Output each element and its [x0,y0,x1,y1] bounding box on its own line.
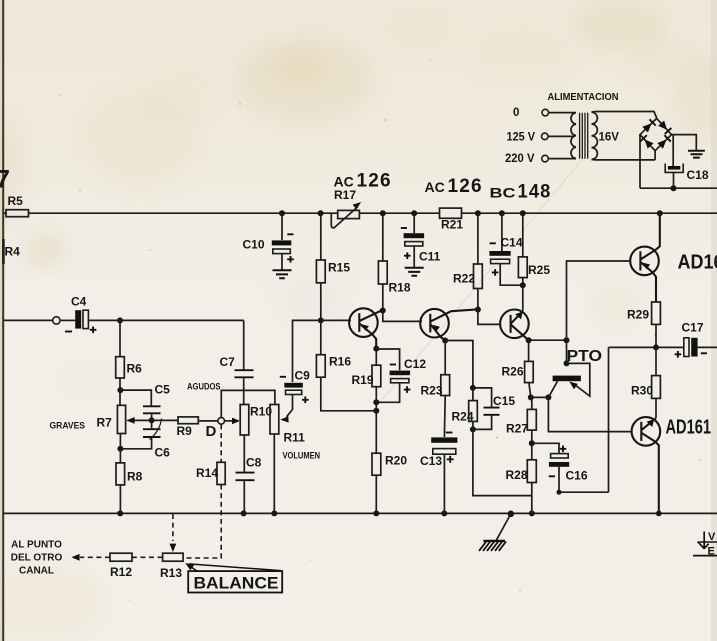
wire 220V to primary bottom [548,158,576,160]
potentiometer R7 [117,405,125,433]
svg-text:R23: R23 [421,384,443,398]
svg-text:R17: R17 [334,188,356,202]
capacitor C12 [390,371,411,376]
junction R22 top [475,210,481,216]
wire R23 top [444,341,446,375]
svg-text:CANAL: CANAL [19,566,54,577]
svg-text:C18: C18 [687,168,709,182]
capacitor C15 [484,408,500,415]
C14 plus sign [492,269,499,276]
junction C11 top [411,210,417,216]
svg-text:R13: R13 [160,566,182,580]
svg-text:C4: C4 [71,295,87,309]
wire C16 bottom to output column [559,467,609,492]
wire emitter node to Q3 [522,285,524,311]
C12 plus sign [404,386,411,393]
resistor R16 [316,355,325,378]
wire wiper row to R9 [152,419,178,421]
wire node D to R10 arrow [225,420,234,422]
capacitor C17 [684,338,689,357]
wire R27 top [531,397,533,409]
junction Q2 collector / R22 [475,307,481,313]
svg-text:C17: C17 [682,321,704,335]
svg-text:C15: C15 [493,394,515,408]
junction C10 top [279,210,285,216]
resistor R14 [217,462,225,484]
BALANCE pointer arrow [188,564,281,571]
diode D1 top-left [642,123,651,132]
wire rail R5 to R17 [29,212,338,214]
resistor R9 [178,417,198,424]
junction PTO collector node [545,394,551,400]
transformer T1 secondary 16V [592,112,598,159]
capacitor C14 [489,251,510,256]
svg-text:R9: R9 [177,424,193,438]
svg-text:AD16: AD16 [678,252,717,274]
wire 125V tap [548,135,574,137]
C16 plus sign [560,446,567,453]
junction output node [653,344,659,350]
capacitor C5 [143,406,161,413]
wire input lead [4,319,53,321]
wire C15 top lead [473,388,492,407]
wire C12 bottom to R19 bottom node [376,383,399,403]
svg-text:C6: C6 [155,446,171,460]
wire C10 lead [281,213,283,240]
terminal 0 [542,109,549,116]
resistor R6 [116,357,125,378]
page edge strip [0,0,2,641]
wire R16 bottom to R19 node [321,377,377,411]
svg-text:148: 148 [518,182,552,203]
wire R15 to base node [320,283,322,321]
junction C15 top [470,385,476,391]
capacitor C7 [235,370,254,377]
svg-text:ALIMENTACION: ALIMENTACION [548,91,619,103]
wire C17 out to right edge [698,346,717,348]
resistor R23 [441,375,450,396]
junction PTO column top [564,337,570,343]
wire R19 to R20 [375,387,377,454]
wire node to C16 top [532,443,559,453]
paper specks [59,59,701,601]
wire output row [609,346,684,348]
junction C16 bottom [557,490,562,495]
svg-text:220 V: 220 V [505,153,535,165]
paper crease [380,150,590,402]
svg-text:V: V [708,531,716,543]
junction Q1 base node [318,317,324,323]
svg-text:AL PUNTO: AL PUNTO [11,540,62,551]
svg-text:R8: R8 [127,470,143,484]
svg-text:DEL OTRO: DEL OTRO [11,553,63,564]
C12 minus sign [390,364,396,366]
wire R23 to C13 [443,396,446,438]
C13 minus sign [446,432,453,434]
wire Q2 emitter node to C15 column [445,341,473,388]
wire C18 to bottom rail [673,172,675,188]
wire rail R17 to R21 [359,212,439,214]
svg-text:BALANCE: BALANCE [194,574,279,593]
C17 plus sign [675,351,682,358]
wire R16 column [320,320,322,354]
R17 wiper loop and arrow [331,207,358,228]
svg-text:0: 0 [513,107,519,119]
junction R7 bottom [117,446,123,452]
svg-text:R5: R5 [8,194,24,208]
ground symbol C10 [273,270,292,278]
C17 minus sign [701,352,707,354]
svg-text:R30: R30 [631,384,653,398]
wire R30 to lower emitter [655,398,657,418]
wire bridge left corner down [639,135,641,189]
wire C7 to agudos row [243,378,245,390]
C10 plus sign [287,256,294,263]
svg-text:R6: R6 [127,362,143,376]
transistor Q1 AC126 [349,308,378,337]
transistor Q3 BC148 [500,310,529,339]
dashed wire R13 to R12 [132,556,163,558]
transformer T1 core [580,113,588,159]
wire R26 top [528,340,530,361]
svg-text:R28: R28 [506,468,528,482]
svg-text:R10: R10 [250,405,272,419]
wire R29 to output node [655,324,657,347]
wire C9 top [293,320,321,382]
junction Q3 emitter node [520,282,526,288]
svg-text:AC: AC [334,174,354,190]
junction Q2 emitter [442,338,448,344]
wire C11 to ground [413,246,415,267]
wire ground rail [3,512,717,514]
wire R25 to emitter node [522,278,524,286]
resistor R12 [110,553,132,561]
capacitor C9 [284,383,303,388]
wire R10 top lead [243,390,245,404]
wire C14 top lead [501,213,503,251]
wire R25 column [522,213,524,257]
svg-text:R16: R16 [329,355,351,369]
terminal 125V [542,133,549,140]
junction R25 top [520,210,526,216]
svg-text:VOLUMEN: VOLUMEN [283,451,321,462]
resistor R15 [316,260,325,283]
transformer T1 primary [571,113,576,159]
V/E measurement mark [698,532,709,549]
resistor R28 [527,460,536,483]
wire C10 to ground [281,254,283,270]
svg-text:R29: R29 [627,308,649,322]
capacitor C6 [143,429,161,437]
svg-text:C7: C7 [220,355,236,369]
junction C14 top [499,210,505,216]
junction wiper row and C6 [149,417,155,423]
terminal 220V [542,155,549,162]
wire R9 to node D [198,420,218,422]
svg-text:R20: R20 [385,454,407,468]
C6 crossing arc [150,419,162,440]
potentiometer R11 [270,405,279,435]
wire R22 to Q2 collector [477,289,479,310]
resistor R17 (variable) [338,210,360,218]
wire down to PTO node [566,340,568,363]
resistor R8 [116,463,125,485]
svg-text:C12: C12 [404,357,426,371]
junction PTO emitter node [564,360,570,366]
dashed wire ground rail to R13 wiper [172,514,174,541]
wire R18 top [382,213,384,261]
wire R27 bottom to node [531,430,533,443]
resistor R5 [6,210,29,217]
resistor R26 [525,361,534,382]
svg-text:R15: R15 [328,261,350,275]
resistor R19 [372,365,381,387]
svg-text:R7: R7 [97,416,113,430]
PTO emitter arrow [569,382,578,390]
svg-text:126: 126 [448,176,483,197]
wire down to C7 [243,320,245,369]
wire C15 bottom lead [473,416,492,430]
junction graves top [117,387,123,393]
ground symbol PSU [688,151,705,158]
svg-text:PTO: PTO [567,348,603,365]
wire secondary top to bridge [592,112,657,119]
wire R7 bottom to R8 [119,434,121,463]
svg-text:R19: R19 [352,373,374,387]
C9 minus sign [280,376,286,378]
svg-text:C16: C16 [566,469,588,483]
svg-text:AGUDOS: AGUDOS [187,382,221,393]
svg-text:AD161: AD161 [666,417,712,439]
Q3 emitter arrow [515,312,523,320]
dashed wire R14 to balance row [184,485,222,559]
wire 0 to primary [549,112,576,114]
wire R15 column top [320,213,322,260]
input terminal [53,317,60,324]
svg-text:R24: R24 [452,410,474,424]
svg-text:R21: R21 [441,218,463,232]
wire Q1 base [321,319,351,321]
svg-text:R14: R14 [196,466,218,480]
svg-text:D: D [206,423,217,440]
svg-text:C8: C8 [246,456,262,470]
wire PTO node to lower base row [548,397,632,431]
wire R22 column [477,213,479,264]
wire R20 to ground rail [375,475,377,513]
C16 minus sign [549,475,555,477]
wire C4 to C7 corner [88,319,243,321]
wire R24 bottom down and right to R28 column [473,421,532,495]
wire rail R21 to right edge [462,212,717,214]
transistor upper AD16x [630,247,659,276]
node D [218,418,225,425]
svg-text:125 V: 125 V [507,132,536,144]
junction C13 bottom [441,510,447,516]
junction Q1 emitter / R19 [373,346,379,352]
ground symbol C11 [405,268,424,276]
junction R16 feed [373,408,379,414]
wire C6 top lead [151,420,153,428]
wire Q2 collector node to Q3 base [478,310,501,325]
wire Q1 emitter node to C12 top [376,349,399,370]
C13 plus sign [447,456,454,463]
junction R20 bottom [373,510,379,516]
wire output column up [608,347,610,492]
right edge shading [711,0,717,641]
diode D2 top-right [658,121,667,130]
resistor R18 [378,261,387,284]
svg-text:R12: R12 [110,565,132,579]
capacitor C10 [272,240,292,245]
wire terminal to C4 [60,319,75,321]
wire bridge right corner to ground [672,135,697,150]
svg-text:C10: C10 [243,238,265,252]
wire R28 top [531,443,533,460]
wire PSU bottom out to right edge [640,187,717,189]
junction Q3 collector [526,337,532,343]
junction R6 top [117,317,123,323]
wire C8 to ground rail [243,481,245,513]
svg-text:R25: R25 [528,263,550,277]
wire up to upper transistor base [567,261,632,340]
capacitor C8 [236,473,255,481]
Q2 emitter arrow [433,325,440,332]
svg-text:R27: R27 [506,422,528,436]
capacitor C18 [668,166,680,170]
wire R10 bottom to C8 [243,435,245,472]
dashed wire R12 to other channel arrow [80,556,110,558]
wire bridge to C18 [672,135,674,167]
capacitor C4 [75,310,81,328]
potentiometer R10 [240,405,249,436]
wire secondary bottom to bridge [592,151,656,160]
svg-text:R11: R11 [284,431,306,445]
wire R8 to ground rail [119,485,121,514]
wire agudos row [221,390,275,417]
C11 plus sign [404,252,411,259]
svg-text:C9: C9 [295,369,311,383]
wire C13 to ground rail [443,454,445,513]
svg-text:BC: BC [490,185,516,201]
wire C5 to wiper node [151,414,153,420]
capacitor C13 [431,437,457,442]
junction R18 top [380,210,386,216]
junction Q1 collector / R18 [380,308,386,314]
C14 minus sign [490,242,496,244]
junction C8 bottom [241,510,247,516]
wire C6 bottom to R7 bottom [120,438,151,449]
upper transistor emitter arrow [643,263,650,270]
resistor R27 [527,409,536,430]
svg-text:AC: AC [425,179,445,195]
C4 plus sign [90,327,97,334]
wire graves node to C5 [120,390,151,406]
junction R19 bottom [373,399,379,405]
junction R24 bottom [470,426,476,432]
junction chassis ground [508,511,515,518]
wire R26 bottom to node row [529,383,531,398]
wire R24 top [472,388,474,401]
svg-text:R22: R22 [453,272,475,286]
resistor R29 [652,302,661,324]
bridge rectifier diamond [640,118,672,150]
wire C9 down to R11 wiper arrow [287,395,293,417]
svg-text:C13: C13 [420,454,442,468]
wire R30 top [655,347,657,375]
resistor R20 [372,453,381,475]
svg-text:C11: C11 [419,250,441,264]
transistor Q2 AC126 [420,309,449,338]
BALANCE callout box [188,571,282,592]
PTO collector lead [548,381,557,397]
C11 minus sign [401,227,407,229]
junction R11 bottom [271,510,277,516]
wire R19 top [375,349,377,366]
wire R6 to graves node [119,378,121,405]
wire R28 to ground rail [531,483,533,514]
resistor R25 [518,257,527,278]
junction R27/R28/C16 [529,440,535,446]
junction C18/bottom [671,185,677,191]
transistor PTO base bar [553,376,581,382]
transistor lower AD161 [632,417,661,446]
diode D4 bottom-right [657,140,666,149]
wire C14 bottom to emitter node [500,264,523,286]
wire rail left lead [3,212,6,214]
resistor R21 [440,208,462,218]
PTO emitter bracket [567,363,590,396]
wire C11 lead [413,213,415,233]
capacitor C16 [551,454,569,458]
page edge line [2,0,4,641]
lower emitter arrow [647,419,655,427]
svg-text:C14: C14 [501,236,523,250]
junction R26/R27 [528,394,534,400]
wire R11 bottom to ground rail [273,434,275,513]
wire Q1 collector to Q2 base [383,311,422,322]
resistor R24 [469,401,478,422]
svg-text:R18: R18 [389,281,411,295]
svg-text:126: 126 [357,171,392,192]
capacitor C11 [404,233,425,238]
junction R8 bottom [117,510,123,516]
junction R28 bottom [529,510,535,516]
junction R15 top [318,210,324,216]
wire Q3 collector row to PTO column [529,339,567,341]
C4 minus sign [65,331,72,333]
wire R18 bottom to Q1 collector [382,284,384,311]
junction lower output transistor collector [656,511,662,517]
dashed wire node D to R14 [220,424,222,462]
svg-text:R4: R4 [5,245,21,259]
svg-text:C5: C5 [155,383,171,397]
svg-text:GRAVES: GRAVES [50,421,86,432]
diode D3 bottom-left [645,139,654,148]
R7 wiper arrow [133,419,152,421]
wire node row [531,396,549,398]
Q1 emitter arrow [362,324,369,331]
resistor R22 [474,264,483,289]
svg-text:16V: 16V [599,132,620,144]
resistor R13 (balance pot) [163,553,184,561]
C10 minus sign [287,233,293,235]
junction upper output transistor collector [657,210,663,216]
resistor R30 [652,376,661,399]
svg-text:R26: R26 [502,365,524,379]
R13 wiper arrow [170,544,177,552]
C9 plus sign [302,397,309,404]
wire R6 column [119,320,121,356]
